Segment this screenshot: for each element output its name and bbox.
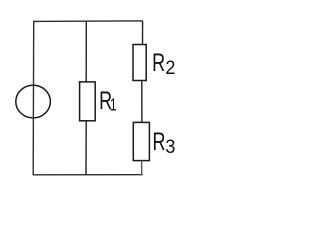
svg-text:2: 2 — [165, 57, 175, 79]
label R2 — [152, 48, 175, 78]
resistor R3 — [133, 122, 149, 160]
wire right branch bottom (R3 to bottom rail) — [141, 161, 143, 175]
wire middle branch top — [85, 21, 87, 82]
svg-text:R: R — [153, 127, 166, 156]
svg-text:3: 3 — [165, 135, 175, 157]
wire right branch middle (R2 to R3) — [141, 80, 143, 123]
wire top rail — [33, 20, 143, 23]
label R1 — [99, 86, 117, 115]
svg-text:R: R — [152, 48, 165, 77]
wire bottom rail — [33, 174, 143, 176]
label R3 — [153, 127, 176, 157]
wire left branch — [32, 21, 35, 175]
wire right branch top — [142, 21, 144, 45]
resistor R2 — [133, 45, 146, 81]
resistor R1 — [80, 82, 96, 121]
svg-text:1: 1 — [110, 95, 117, 115]
wire middle branch bottom — [85, 120, 87, 175]
voltage source V1 — [16, 85, 51, 118]
